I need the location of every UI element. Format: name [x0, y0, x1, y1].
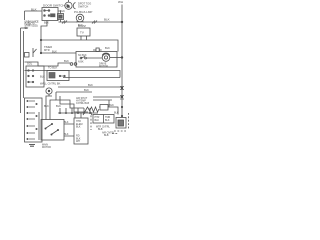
svg-text:BLK: BLK — [31, 8, 37, 12]
svg-text:SWITCH: SWITCH — [78, 5, 88, 9]
svg-text:BLK: BLK — [105, 119, 110, 122]
svg-text:TO BLK: TO BLK — [48, 66, 57, 70]
svg-text:MOTOR: MOTOR — [99, 65, 108, 68]
svg-text:CNTRL BLB: CNTRL BLB — [76, 102, 89, 105]
svg-text:BLK: BLK — [64, 59, 69, 63]
svg-text:BLK: BLK — [44, 104, 49, 108]
svg-text:BLK: BLK — [40, 75, 45, 79]
svg-text:BLK: BLK — [114, 112, 119, 115]
svg-text:BLK: BLK — [52, 50, 57, 54]
svg-text:WH: WH — [118, 0, 123, 4]
svg-text:NC BLK: NC BLK — [78, 54, 87, 57]
svg-text:BLK: BLK — [105, 46, 110, 50]
svg-text:BLK: BLK — [88, 83, 93, 87]
svg-text:BLK: BLK — [60, 9, 65, 13]
svg-text:BLK: BLK — [84, 88, 89, 92]
svg-text:PU-BUZ-LMP: PU-BUZ-LMP — [74, 10, 92, 14]
svg-text:BUZZ: BUZZ — [78, 24, 86, 28]
svg-text:MTR: MTR — [44, 48, 50, 52]
svg-text:BLK: BLK — [109, 103, 114, 107]
svg-text:MOTOR: MOTOR — [42, 146, 51, 149]
svg-text:BLK: BLK — [104, 18, 110, 22]
svg-text:BLK: BLK — [44, 21, 49, 25]
svg-text:WH: WH — [76, 140, 80, 143]
svg-text:DOOR SWITCH: DOOR SWITCH — [43, 4, 65, 8]
svg-text:SOL: SOL — [27, 62, 33, 66]
svg-text:BLK: BLK — [64, 121, 69, 124]
svg-text:BLK: BLK — [56, 104, 61, 108]
svg-text:BLK: BLK — [95, 119, 100, 122]
svg-text:BLB: BLB — [104, 134, 109, 137]
svg-text:WALL CNTRL BK: WALL CNTRL BK — [40, 82, 61, 86]
svg-text:BLK: BLK — [64, 133, 69, 136]
svg-text:BLK: BLK — [76, 126, 81, 129]
svg-text:TV: TV — [80, 31, 84, 35]
svg-text:N BK: N BK — [78, 61, 84, 64]
